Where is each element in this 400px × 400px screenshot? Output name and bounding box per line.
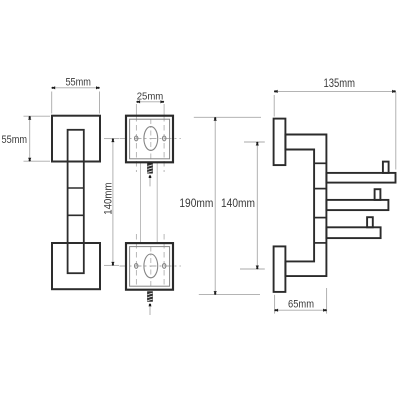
top wall plate outer square [126, 116, 173, 163]
screw hole centerline left (vertical dashed) [135, 104, 137, 116]
svg-text:65mm: 65mm [288, 299, 314, 311]
dimension 135mm: line [274, 90, 395, 92]
dimension 25mm: line [137, 101, 164, 103]
dimension 65mm: witness lines [274, 295, 276, 314]
side view bottom wall plate [274, 246, 286, 292]
dimension 55mm left: arrows [28, 116, 31, 120]
top wall plate inner square [130, 119, 170, 159]
front view top square plate [52, 116, 100, 162]
dimension 25mm: arrows [137, 100, 141, 103]
swivel arm 2 knob [375, 189, 381, 200]
svg-text:140mm: 140mm [221, 196, 255, 210]
dimension 190mm: line [214, 117, 216, 294]
dimension 140mm middle: line [256, 142, 258, 269]
dimension 55mm top: line [52, 87, 100, 89]
top plate center ellipse [144, 127, 158, 151]
screw hole centerline right (vertical dashed) [163, 104, 165, 116]
top plate left screw hole [135, 136, 138, 141]
dimension 190mm: arrows [214, 117, 217, 121]
svg-text:140mm: 140mm [102, 183, 114, 215]
post division 3 [314, 217, 326, 219]
svg-text:135mm: 135mm [324, 76, 356, 90]
dimension 140mm left view: line [112, 139, 114, 266]
dimension 190mm: witness lines [194, 116, 261, 118]
svg-text:25mm: 25mm [137, 92, 164, 103]
bottom plate horizontal centerline [120, 265, 181, 267]
dimension 140mm middle: witness lines [244, 141, 265, 143]
bottom plate center ellipse [144, 254, 158, 278]
post division 2 [314, 188, 326, 190]
dimension 135mm: witness lines [273, 95, 275, 117]
swivel arm 2 [326, 200, 388, 210]
front view vertical bar [68, 130, 84, 273]
bar division line 1 [68, 187, 84, 189]
bottom plate left screw hole [135, 264, 138, 269]
dimension 140mm middle: arrows [256, 142, 259, 146]
svg-text:55mm: 55mm [2, 134, 28, 146]
projection line left between plates [140, 162, 142, 243]
top plate right screw hole [163, 136, 166, 141]
plate center vertical dashed line bottom [150, 247, 152, 288]
swivel arm 3 knob [367, 217, 373, 227]
dimension 55mm top: witness lines [51, 92, 53, 114]
post division 4 [314, 242, 326, 244]
bottom wall plate inner square [130, 247, 170, 287]
dimension 140mm left view: witness lines [104, 138, 119, 140]
swivel arm 3 [326, 227, 380, 238]
bar division line 2 [68, 214, 84, 216]
plate center vertical dashed line top [150, 119, 152, 161]
top screw symbol [148, 163, 153, 173]
dimension 55mm left: witness lines [24, 115, 51, 117]
projection line right between plates [156, 162, 158, 243]
side view top wall plate [274, 119, 286, 166]
dimension 135mm: arrows [274, 90, 278, 93]
side view bracket and pivot post outline [285, 135, 326, 277]
top screw arrow [149, 175, 152, 178]
bottom screw arrow [149, 303, 152, 306]
bottom screw symbol [148, 292, 153, 302]
post division 1 [314, 162, 326, 164]
front view bottom square plate [52, 243, 100, 289]
dimension 140mm left view: arrows [111, 139, 114, 143]
svg-text:190mm: 190mm [179, 196, 213, 210]
bottom plate right screw hole [163, 264, 166, 269]
swivel arm 1 knob [383, 162, 389, 173]
dimension 55mm left: line [29, 116, 31, 161]
dimension 55mm top: arrows [52, 86, 56, 89]
top plate horizontal centerline [120, 137, 181, 139]
bottom wall plate outer square [126, 243, 173, 290]
svg-text:55mm: 55mm [65, 77, 91, 89]
swivel arm 1 [326, 173, 395, 183]
dimension 65mm: arrows [275, 309, 279, 312]
dimension 65mm: line [275, 309, 327, 311]
